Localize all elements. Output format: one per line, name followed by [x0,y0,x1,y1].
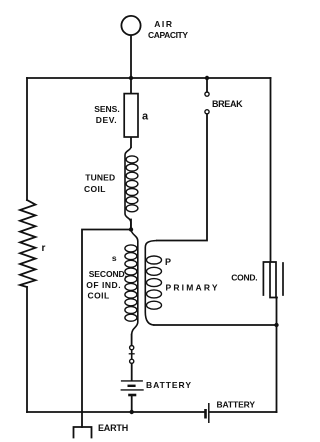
svg-text:OF IND.: OF IND. [86,280,120,290]
svg-text:s: s [112,253,117,263]
svg-text:DEV.: DEV. [96,115,117,125]
svg-text:BATTERY: BATTERY [146,380,191,390]
svg-text:BREAK: BREAK [212,99,243,109]
svg-text:EARTH: EARTH [98,423,128,433]
svg-text:COND.: COND. [231,272,257,282]
svg-text:COIL: COIL [84,184,106,194]
svg-text:TUNED: TUNED [85,172,115,182]
svg-text:P: P [165,257,171,267]
svg-text:a: a [142,110,149,122]
svg-text:SENS.: SENS. [94,104,120,114]
svg-text:CAPACITY: CAPACITY [148,30,188,40]
svg-text:PRIMARY: PRIMARY [166,282,218,292]
svg-text:COIL: COIL [88,291,110,301]
svg-text:AIR: AIR [154,19,172,29]
svg-text:SECOND.: SECOND. [89,269,127,279]
svg-text:r: r [42,243,46,254]
svg-text:BATTERY: BATTERY [217,400,256,410]
